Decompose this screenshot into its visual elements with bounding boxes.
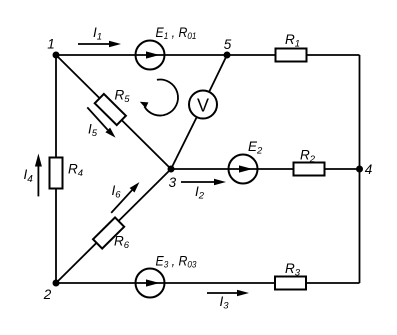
svg-text:R1: R1 — [285, 32, 300, 50]
svg-text:4: 4 — [365, 162, 373, 177]
node 4 — [356, 162, 372, 177]
svg-text:R6: R6 — [114, 234, 130, 252]
wire left side (node1 to node2) — [55, 55, 57, 283]
svg-text:3: 3 — [169, 175, 177, 190]
current arrow I1 — [78, 25, 121, 47]
svg-text:I1: I1 — [93, 25, 102, 43]
svg-text:1: 1 — [47, 37, 55, 52]
node 2 — [43, 280, 60, 303]
wire node5 to voltmeter — [203, 55, 227, 105]
wire bottom (node2 to bottom-right corner) — [56, 282, 360, 284]
resistor R3 — [275, 261, 306, 290]
svg-text:2: 2 — [43, 287, 52, 302]
resistor R1 — [276, 32, 307, 62]
EMF source E2 — [229, 139, 264, 184]
wire right side (top-right corner to bottom-right corner through node 4) — [359, 55, 361, 283]
node 3 — [168, 166, 177, 191]
svg-text:R4: R4 — [68, 162, 83, 180]
current arrow I3 — [207, 290, 249, 312]
svg-text:R3: R3 — [285, 261, 301, 279]
voltmeter V — [189, 91, 217, 119]
svg-text:I3: I3 — [220, 294, 230, 312]
current arrow I2 — [181, 179, 226, 202]
wire voltmeter to node3 — [171, 105, 203, 170]
EMF source E1,R01 — [136, 25, 197, 70]
svg-text:I4: I4 — [24, 167, 34, 185]
wire node5 to top-right corner — [227, 54, 360, 56]
resistor R2 — [294, 148, 325, 176]
current arrow I6 — [111, 182, 139, 213]
wire node3 to node4 (middle) — [171, 168, 360, 170]
svg-text:V: V — [197, 96, 209, 116]
resistor R5 — [95, 88, 131, 126]
current arrow I5 — [87, 107, 115, 139]
svg-text:R5: R5 — [115, 88, 131, 106]
svg-text:E1 , R01: E1 , R01 — [156, 25, 197, 41]
node 1 — [47, 37, 59, 59]
resistor R4 — [50, 158, 84, 189]
svg-text:5: 5 — [224, 37, 232, 52]
node 5 — [224, 37, 232, 59]
wire node1 to node5 (top) — [56, 54, 227, 56]
svg-text:I5: I5 — [88, 122, 98, 140]
svg-text:R2: R2 — [300, 148, 316, 166]
svg-text:E2: E2 — [248, 139, 263, 157]
svg-text:I2: I2 — [195, 184, 205, 202]
svg-text:E3 , R03: E3 , R03 — [156, 253, 197, 269]
EMF source E3,R03 — [136, 253, 197, 297]
svg-text:I6: I6 — [112, 183, 122, 201]
resistor R6 — [93, 217, 130, 251]
loop direction arrow — [140, 80, 178, 116]
current arrow I4 — [24, 154, 42, 197]
wire node2 to node3 diagonal — [56, 169, 171, 283]
wire node1 to node3 diagonal — [56, 55, 171, 169]
